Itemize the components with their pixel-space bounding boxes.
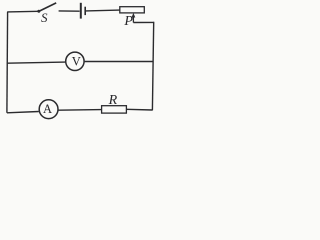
wire: switch to battery [59, 10, 80, 12]
wire: right rail vertical [152, 22, 153, 111]
ammeter A [39, 100, 58, 119]
wire: wiper to right rail [133, 21, 153, 23]
battery cell: long plate [80, 3, 82, 19]
wire: resistor to right rail [126, 108, 152, 111]
wire: battery to rheostat [86, 9, 120, 12]
svg-text:A: A [43, 102, 52, 116]
svg-text:S: S [41, 10, 48, 25]
wire: middle branch from left rail to voltmeter [7, 62, 65, 63]
wire: bottom-left from left rail to ammeter [7, 112, 39, 113]
rheostat P wiper arrow [132, 13, 136, 23]
svg-text:V: V [72, 55, 81, 69]
wire: ammeter to resistor [58, 109, 102, 112]
wire: left rail vertical [6, 12, 9, 113]
svg-text:P: P [123, 14, 133, 29]
switch S [37, 3, 56, 13]
rheostat P body [120, 7, 145, 13]
resistor R [102, 106, 127, 113]
wire: voltmeter to right rail [85, 61, 153, 63]
battery cell: short plate [84, 7, 86, 15]
voltmeter V [66, 52, 84, 70]
svg-text:R: R [108, 93, 118, 108]
wire: top-left horizontal to switch [7, 10, 38, 13]
